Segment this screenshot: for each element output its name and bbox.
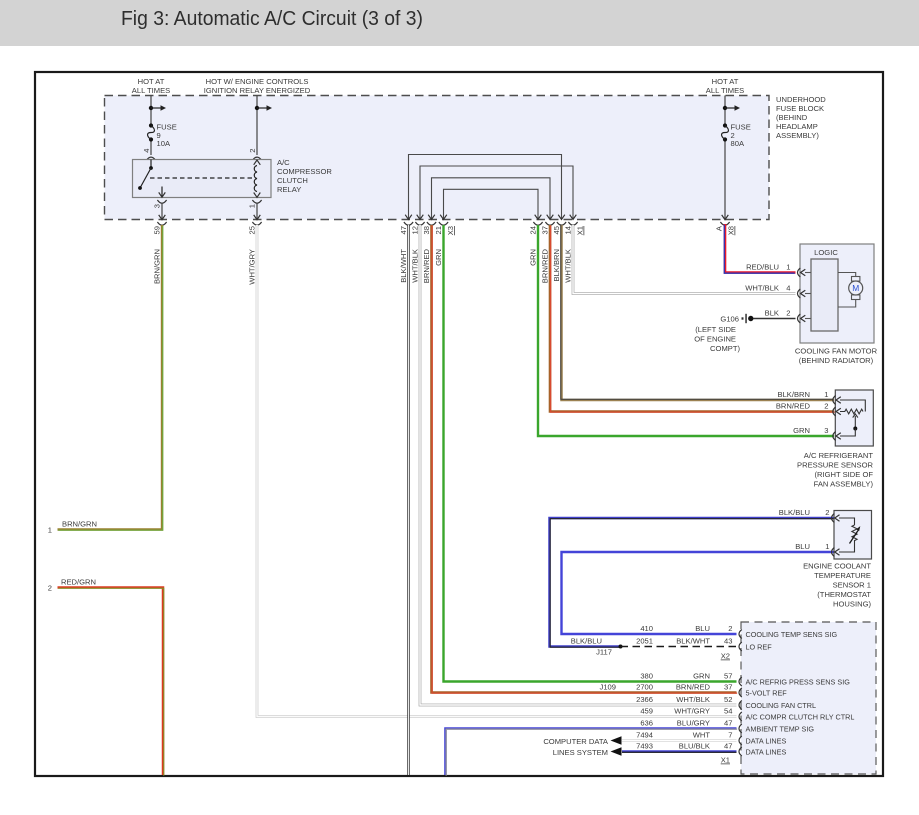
svg-text:1: 1 — [248, 204, 257, 208]
svg-text:RELAY: RELAY — [277, 185, 301, 194]
svg-text:BLU: BLU — [795, 542, 810, 551]
svg-text:BLU/GRY: BLU/GRY — [677, 719, 710, 728]
svg-text:BRN/GRN: BRN/GRN — [153, 249, 162, 284]
fan motor logic inner box — [811, 259, 838, 331]
svg-text:1: 1 — [786, 263, 790, 272]
svg-text:BLK: BLK — [765, 309, 779, 318]
svg-text:2700: 2700 — [636, 683, 653, 692]
svg-text:BRN/GRN: BRN/GRN — [62, 520, 97, 529]
wire colour label BRN/RED — [422, 248, 431, 283]
svg-text:CLUTCH: CLUTCH — [277, 176, 308, 185]
ECU pin 54 A/C COMPR CLUTCH RLY CTRL — [640, 707, 854, 722]
svg-text:FUSE: FUSE — [157, 122, 177, 131]
connector X1 label (ECU) — [721, 756, 730, 765]
svg-text:BLK/BLU: BLK/BLU — [779, 508, 810, 517]
wire WHT computer data to ECU pin 7 — [622, 739, 737, 742]
pressure sensor pin 3 connector — [793, 426, 841, 441]
svg-text:47: 47 — [724, 719, 732, 728]
fan motor pin 1 connector — [746, 263, 811, 278]
underhood fuse block (dashed box) — [105, 96, 770, 220]
wire relay pin 3 to fuse block boundary — [159, 204, 166, 220]
svg-text:2366: 2366 — [636, 695, 653, 704]
svg-text:1: 1 — [825, 542, 829, 551]
connector X2 label — [721, 652, 730, 661]
wire feed to fuse 9 — [150, 96, 152, 124]
svg-text:HOUSING): HOUSING) — [833, 600, 871, 609]
svg-text:1: 1 — [824, 390, 828, 399]
svg-text:43: 43 — [724, 637, 732, 646]
node branch at fuse 9 feed — [149, 105, 166, 111]
svg-text:ALL TIMES: ALL TIMES — [132, 86, 170, 95]
wire colour label GRN — [434, 249, 443, 266]
svg-text:DATA LINES: DATA LINES — [746, 737, 787, 746]
svg-text:59: 59 — [153, 226, 162, 234]
svg-text:A/C: A/C — [277, 158, 290, 167]
svg-text:(BEHIND: (BEHIND — [776, 113, 808, 122]
relay control dashed link — [150, 177, 255, 179]
svg-text:WHT/BLK: WHT/BLK — [745, 284, 779, 293]
label HOT AT ALL TIMES (left) — [132, 77, 170, 95]
svg-text:12: 12 — [411, 226, 420, 234]
relay coil — [254, 160, 261, 197]
connector 12 — [411, 222, 425, 234]
connector 24 — [529, 222, 543, 234]
svg-text:X8: X8 — [727, 226, 736, 235]
wire colour label BRN/RED (2) — [541, 248, 550, 283]
svg-text:BLU/BLK: BLU/BLK — [679, 742, 710, 751]
svg-text:RED/BLU: RED/BLU — [746, 263, 779, 272]
svg-text:2: 2 — [248, 149, 257, 153]
svg-text:M: M — [852, 283, 859, 293]
svg-text:HOT AT: HOT AT — [138, 77, 165, 86]
svg-text:(LEFT SIDE: (LEFT SIDE — [695, 325, 736, 334]
relay pin 3 connector — [153, 200, 167, 208]
wire BLK/BRN connector 45 to pressure sensor pin 1 — [561, 224, 834, 400]
wire GRN connector 24 to pressure sensor pin 3 — [538, 225, 834, 436]
svg-text:J109: J109 — [600, 683, 616, 692]
svg-text:47: 47 — [724, 742, 732, 751]
label COOLING FAN MOTOR (BEHIND RADIATOR) — [795, 347, 878, 366]
splice J117 — [596, 645, 622, 657]
svg-text:BLU: BLU — [695, 624, 710, 633]
svg-text:HEADLAMP: HEADLAMP — [776, 122, 818, 131]
svg-text:459: 459 — [640, 707, 653, 716]
svg-text:BLK/BLU: BLK/BLU — [571, 636, 602, 645]
wire BRN/RED connector 37 to pressure sensor pin 2 — [550, 225, 835, 412]
wire relay pin 1 to fuse block boundary — [254, 204, 261, 220]
svg-text:(BEHIND RADIATOR): (BEHIND RADIATOR) — [799, 356, 874, 365]
wire feed to fuse 2 — [724, 96, 726, 124]
svg-text:Fig 3: Automatic A/C Circuit (: Fig 3: Automatic A/C Circuit (3 of 3) — [121, 8, 423, 30]
svg-text:37: 37 — [541, 226, 550, 234]
fan motor pin 4 connector — [745, 284, 811, 299]
svg-text:LO REF: LO REF — [746, 643, 773, 652]
label BLK/BLU at splice wire — [571, 636, 602, 645]
svg-text:2: 2 — [728, 624, 732, 633]
svg-text:(THERMOSTAT: (THERMOSTAT — [817, 590, 871, 599]
svg-text:37: 37 — [724, 683, 732, 692]
fuse block internal wire 38-37 — [428, 178, 553, 220]
svg-text:80A: 80A — [731, 139, 745, 148]
svg-text:WHT/BLK: WHT/BLK — [411, 249, 420, 283]
svg-text:COMPUTER DATA: COMPUTER DATA — [543, 737, 609, 746]
svg-text:7494: 7494 — [636, 731, 653, 740]
svg-text:57: 57 — [724, 672, 732, 681]
wire BLK/WHT connector 47 down offpage — [407, 225, 410, 775]
svg-text:HOT AT: HOT AT — [712, 77, 739, 86]
wire feed to relay pin 2 (coil) — [256, 96, 258, 156]
fuse block internal wire 12-14 — [417, 166, 577, 220]
svg-text:410: 410 — [640, 624, 653, 633]
fuse 2 80A — [722, 122, 751, 148]
relay switch output stub to pin 3 — [159, 187, 166, 198]
wire WHT/BLK connector 14 to fan motor pin 4 — [573, 225, 796, 294]
svg-text:UNDERHOOD: UNDERHOOD — [776, 95, 826, 104]
svg-text:1: 1 — [48, 526, 52, 535]
svg-text:G106: G106 — [720, 315, 739, 324]
svg-text:RED/GRN: RED/GRN — [61, 578, 96, 587]
svg-text:7: 7 — [728, 731, 732, 740]
svg-text:BRN/RED: BRN/RED — [422, 248, 431, 283]
svg-text:COOLING FAN MOTOR: COOLING FAN MOTOR — [795, 347, 878, 356]
svg-text:BLK/BRN: BLK/BRN — [552, 249, 561, 282]
connector 47 X3 — [399, 222, 413, 234]
svg-text:47: 47 — [399, 226, 408, 234]
svg-text:FAN ASSEMBLY): FAN ASSEMBLY) — [814, 480, 874, 489]
cooling fan motor box — [800, 244, 874, 343]
svg-text:GRN: GRN — [793, 426, 810, 435]
wire colour label BRN/GRN (pin59) — [153, 249, 162, 284]
svg-text:A/C REFRIG PRESS SENS SIG: A/C REFRIG PRESS SENS SIG — [746, 678, 851, 687]
svg-text:X1: X1 — [576, 226, 585, 235]
ECU pin 47 AMBIENT TEMP SIG — [640, 719, 814, 734]
svg-text:BRN/RED: BRN/RED — [676, 683, 711, 692]
ground G106 — [720, 314, 753, 324]
wire colour label BLK/WHT — [399, 249, 408, 283]
wire fuse 2 to boundary pin A — [722, 142, 729, 220]
fuse 9 10A — [148, 122, 177, 148]
powertrain control module dashed box — [741, 622, 876, 774]
svg-text:14: 14 — [564, 226, 573, 234]
engine coolant temperature sensor box — [834, 511, 872, 560]
svg-text:25: 25 — [248, 226, 257, 234]
svg-text:WHT/BLK: WHT/BLK — [564, 249, 573, 283]
svg-text:HOT W/ ENGINE CONTROLS: HOT W/ ENGINE CONTROLS — [206, 77, 309, 86]
ECU pin 7 DATA LINES — [636, 731, 786, 746]
svg-text:AMBIENT TEMP SIG: AMBIENT TEMP SIG — [746, 725, 815, 734]
svg-text:X2: X2 — [721, 652, 730, 661]
connector 59 at fuse block boundary — [153, 222, 167, 234]
wire BLK/BLU temp sensor pin2 to splice J117 — [550, 518, 835, 647]
svg-text:OF ENGINE: OF ENGINE — [694, 335, 736, 344]
fan motor pin 2 connector — [765, 309, 811, 324]
connector 37 — [541, 222, 555, 234]
label HOT W/ ENGINE CONTROLS IGNITION RELAY ENERGIZED — [204, 77, 311, 95]
svg-text:FUSE BLOCK: FUSE BLOCK — [776, 104, 824, 113]
svg-text:2: 2 — [825, 508, 829, 517]
label A/C REFRIGERANT PRESSURE SENSOR (RIGHT SIDE OF FAN ASSEMBLY) — [797, 451, 873, 489]
svg-text:WHT/BLK: WHT/BLK — [676, 695, 710, 704]
wire logic box to motor top — [838, 273, 856, 277]
wire GRN connector 21 to ECU pin 57 — [444, 225, 737, 682]
svg-text:2051: 2051 — [636, 637, 653, 646]
svg-text:ALL TIMES: ALL TIMES — [706, 86, 744, 95]
temp sensor thermistor RT1 — [839, 518, 860, 552]
svg-text:WHT/GRY: WHT/GRY — [674, 707, 710, 716]
svg-text:WHT: WHT — [693, 731, 711, 740]
fuse block internal wire 47-45 — [405, 155, 565, 220]
A/C compressor clutch relay U-relay box — [133, 160, 272, 198]
connector 14 / X1 label — [564, 222, 585, 235]
wire BLU temp sensor pin1 to ECU pin 2 — [562, 552, 834, 634]
svg-text:DATA LINES: DATA LINES — [746, 748, 787, 757]
svg-text:GRN: GRN — [529, 249, 538, 266]
ECU pin 47 DATA LINES — [636, 742, 786, 757]
label LEFT SIDE OF ENGINE COMPT — [694, 325, 740, 353]
wire colour label WHT/BLK — [411, 249, 420, 283]
svg-text:24: 24 — [529, 226, 538, 234]
svg-text:10A: 10A — [157, 139, 171, 148]
svg-text:4: 4 — [786, 284, 790, 293]
wire RED/BLU fuse 2 to fan motor pin 1 — [724, 224, 795, 273]
label A/C COMPRESSOR CLUTCH RELAY — [277, 158, 332, 194]
ECU pin 43 LO REF — [636, 637, 772, 652]
svg-text:52: 52 — [724, 695, 732, 704]
svg-text:GRN: GRN — [693, 672, 710, 681]
pin 2 connector at relay — [248, 149, 262, 165]
wire BRN/RED connector 38 to ECU pin 37 — [432, 225, 738, 693]
ECU pin 2 COOLING TEMP SENS SIG — [640, 624, 837, 639]
wire fuse 9 to relay pin 4 — [150, 142, 152, 156]
svg-text:5-VOLT REF: 5-VOLT REF — [746, 689, 788, 698]
svg-text:A: A — [715, 225, 724, 231]
svg-text:A/C REFRIGERANT: A/C REFRIGERANT — [804, 451, 874, 460]
connector 45 — [552, 222, 566, 234]
svg-text:PRESSURE SENSOR: PRESSURE SENSOR — [797, 461, 873, 470]
wire colour label BLK/BRN — [552, 249, 561, 282]
svg-text:J117: J117 — [596, 648, 612, 657]
ECU pin 37 5-VOLT REF — [636, 683, 787, 698]
svg-text:380: 380 — [640, 672, 653, 681]
label 1 BRN/GRN — [48, 520, 97, 535]
connector 21 / X3 label — [434, 222, 455, 235]
connector 25 at fuse block boundary — [248, 222, 262, 234]
svg-text:WHT/GRY: WHT/GRY — [248, 249, 257, 285]
svg-text:X3: X3 — [446, 226, 455, 235]
motor M1 symbol — [849, 277, 863, 300]
svg-text:21: 21 — [434, 226, 443, 234]
svg-text:BLK/WHT: BLK/WHT — [676, 637, 710, 646]
pin 4 connector at relay — [142, 149, 156, 165]
svg-text:BRN/RED: BRN/RED — [776, 402, 811, 411]
svg-text:LINES SYSTEM: LINES SYSTEM — [553, 748, 608, 757]
connector 38 — [422, 222, 436, 234]
svg-text:A/C COMPR CLUTCH RLY CTRL: A/C COMPR CLUTCH RLY CTRL — [746, 713, 855, 722]
svg-text:X1: X1 — [721, 756, 730, 765]
relay pin 1 connector — [248, 200, 262, 208]
connector A / X8 at fuse block boundary — [715, 222, 736, 235]
splice label J109 — [600, 683, 616, 692]
svg-text:TEMPERATURE: TEMPERATURE — [814, 571, 871, 580]
wire colour label GRN (2) — [529, 249, 538, 266]
node branch at fuse 2 feed — [723, 105, 740, 111]
svg-text:BRN/RED: BRN/RED — [541, 248, 550, 283]
wire RED/GRN from left connector 2 down offpage — [58, 588, 164, 776]
svg-text:2: 2 — [48, 584, 52, 593]
svg-text:COOLING FAN CTRL: COOLING FAN CTRL — [746, 701, 817, 710]
svg-text:4: 4 — [142, 149, 151, 153]
pressure sensor potentiometer R1 — [840, 400, 865, 436]
svg-text:ENGINE COOLANT: ENGINE COOLANT — [803, 562, 871, 571]
wire BLK G106 to fan motor pin 2 — [754, 318, 796, 320]
svg-text:7493: 7493 — [636, 742, 653, 751]
ECU pin 52 COOLING FAN CTRL — [636, 695, 816, 710]
A/C refrigerant pressure sensor box — [835, 390, 873, 446]
svg-text:LOGIC: LOGIC — [814, 248, 838, 257]
relay switch contacts — [138, 160, 153, 190]
wire BLU/BLK computer data to ECU pin 47 data — [622, 750, 737, 753]
svg-text:BLK/WHT: BLK/WHT — [399, 249, 408, 283]
wire BLU/GRY to ECU pin 47 ambient temp — [446, 729, 738, 776]
temp sensor pin 1 connector — [795, 542, 839, 557]
label LOGIC — [814, 248, 838, 257]
diagram border frame — [35, 72, 883, 776]
svg-text:COOLING TEMP SENS SIG: COOLING TEMP SENS SIG — [746, 630, 838, 639]
pressure sensor pin 2 connector — [776, 402, 841, 417]
wire colour label WHT/BLK (2) — [564, 249, 573, 283]
label HOT AT ALL TIMES (right) — [706, 77, 744, 95]
svg-text:3: 3 — [153, 204, 162, 208]
svg-text:54: 54 — [724, 707, 732, 716]
fuse block internal wire 21-24 — [440, 189, 541, 219]
wire logic box to motor bottom — [838, 300, 856, 307]
label UNDERHOOD FUSE BLOCK (BEHIND HEADLAMP ASSEMBLY) — [776, 95, 826, 140]
wire BRN/GRN relay pin3 to left connector 1 — [58, 225, 163, 530]
svg-text:COMPT): COMPT) — [710, 344, 740, 353]
pressure sensor pin 1 connector — [778, 390, 841, 405]
svg-text:38: 38 — [422, 226, 431, 234]
wire BLK/WHT dashed J117 to ECU pin 43 — [621, 646, 737, 648]
svg-text:COMPRESSOR: COMPRESSOR — [277, 167, 332, 176]
label ENGINE COOLANT TEMPERATURE SENSOR 1 (THERMOSTAT HOUSING) — [803, 562, 871, 609]
svg-text:636: 636 — [640, 719, 653, 728]
computer data lines system labels and arrows — [543, 736, 621, 757]
node branch at relay coil feed — [255, 105, 272, 111]
svg-text:(RIGHT SIDE OF: (RIGHT SIDE OF — [814, 470, 873, 479]
svg-text:2: 2 — [786, 309, 790, 318]
title bar — [0, 0, 919, 46]
svg-text:IGNITION RELAY ENERGIZED: IGNITION RELAY ENERGIZED — [204, 86, 311, 95]
label 2 RED/GRN — [48, 578, 96, 593]
svg-text:45: 45 — [552, 226, 561, 234]
svg-text:BLK/BRN: BLK/BRN — [778, 390, 811, 399]
svg-text:3: 3 — [824, 426, 828, 435]
svg-text:GRN: GRN — [434, 249, 443, 266]
ECU pin 57 A/C REFRIG PRESS SENS SIG — [640, 672, 850, 687]
svg-text:2: 2 — [824, 402, 828, 411]
wire WHT/GRY relay pin1 to ECU pin 54 — [257, 225, 737, 717]
wire colour label WHT/GRY (pin25) — [248, 249, 257, 285]
wire WHT/BLK connector 12 to ECU pin 52 — [420, 225, 737, 705]
svg-text:FUSE: FUSE — [731, 122, 751, 131]
temp sensor pin 2 connector — [779, 508, 840, 523]
svg-text:SENSOR 1: SENSOR 1 — [833, 581, 871, 590]
svg-text:ASSEMBLY): ASSEMBLY) — [776, 131, 819, 140]
